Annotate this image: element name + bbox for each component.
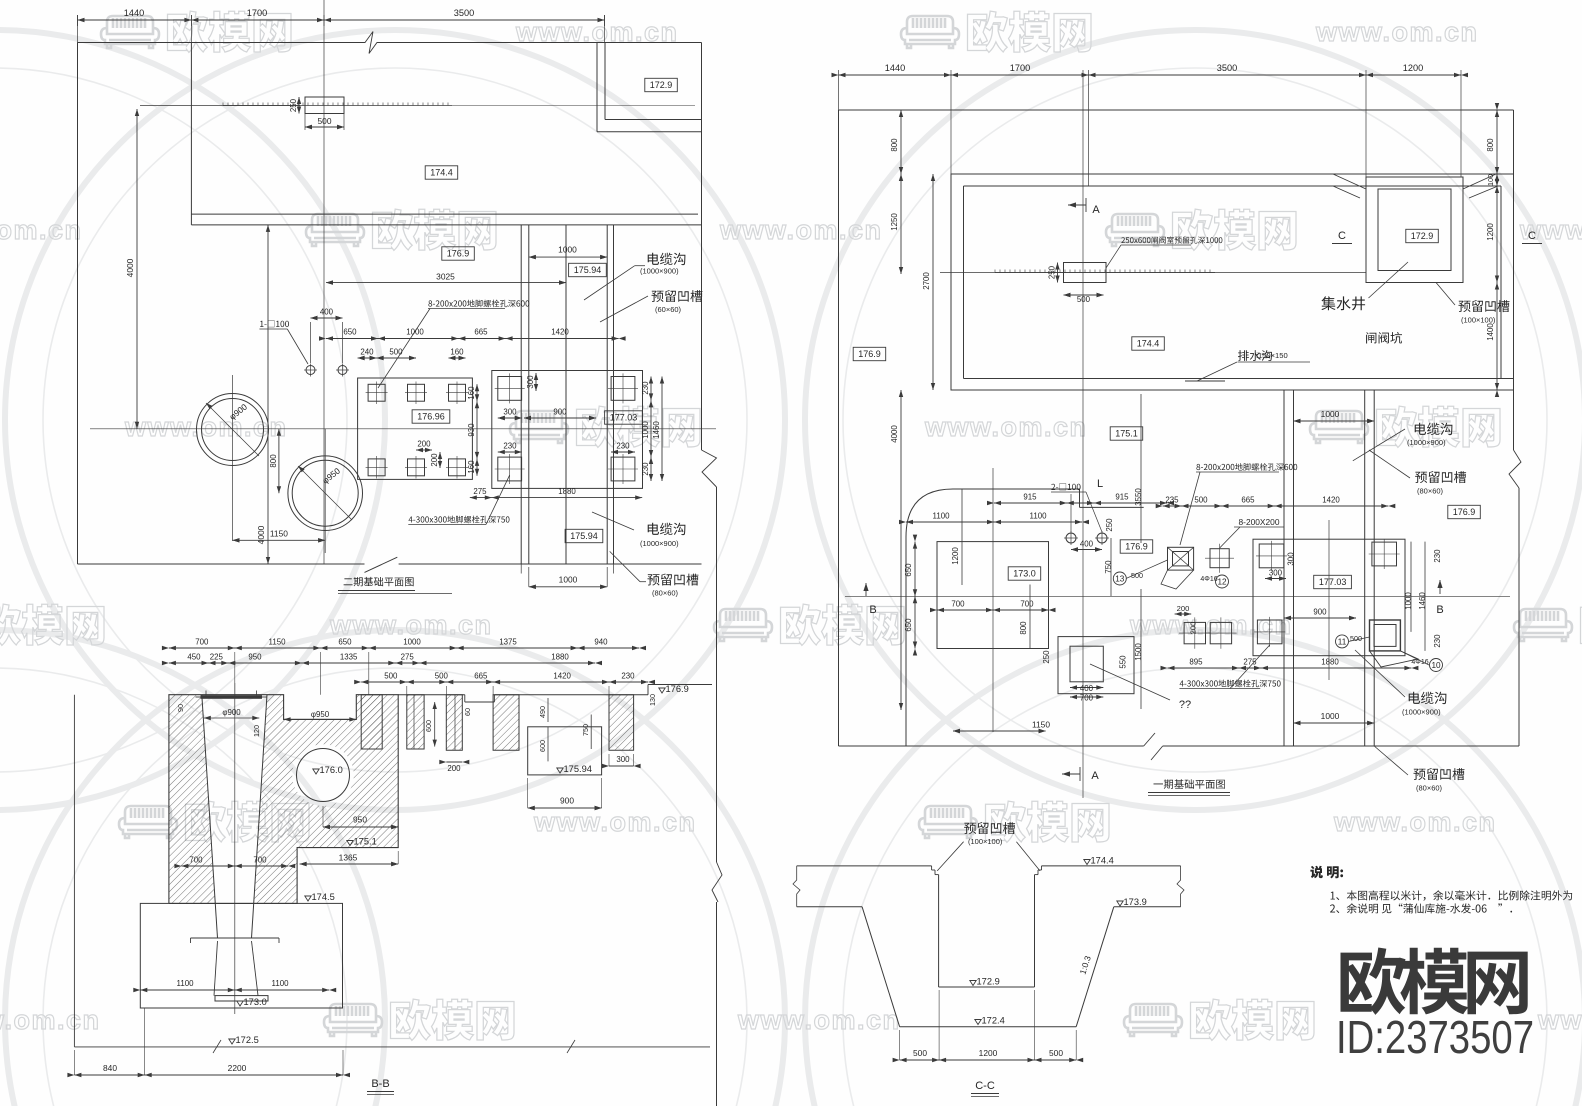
boxed label 175.1 [1110, 427, 1143, 440]
view1 band bottom double line [191, 213, 698, 215]
label 4-300x300 anchor bolts [409, 516, 510, 524]
svg-text:12: 12 [1217, 578, 1227, 587]
svg-text:1365: 1365 [339, 853, 358, 863]
svg-text:www.om.cn: www.om.cn [1315, 17, 1479, 47]
svg-text:www.om.cn: www.om.cn [329, 610, 493, 640]
svg-text:895: 895 [1189, 658, 1203, 667]
rot dims 160/930/160 right of plate [476, 384, 478, 401]
dim 1000 trench top [1294, 420, 1375, 422]
block2 centerline v [1328, 520, 1330, 680]
svg-text:175.94: 175.94 [570, 531, 598, 541]
svg-text:(1000×900): (1000×900) [640, 267, 679, 276]
svg-text:160: 160 [467, 460, 476, 474]
svg-text:400: 400 [1080, 684, 1094, 693]
BB dim 950 [323, 826, 398, 828]
view1 horizontal centerline [90, 428, 716, 430]
leader pad to ?? [1090, 664, 1170, 700]
svg-text:www.om.cn: www.om.cn [0, 1005, 101, 1035]
svg-text:500: 500 [1049, 1048, 1063, 1058]
svg-text:450: 450 [187, 653, 201, 662]
svg-text:176.0: 176.0 [320, 765, 343, 775]
svg-text:230: 230 [621, 672, 635, 681]
CC lower ground left [797, 906, 862, 908]
dim 1000 trench bottom [1294, 722, 1375, 724]
svg-text:400: 400 [1080, 540, 1094, 549]
svg-text:i150×150: i150×150 [1256, 351, 1287, 360]
svg-text:230: 230 [641, 462, 650, 476]
label 2-box100 [1051, 483, 1080, 490]
svg-text:240: 240 [360, 348, 374, 357]
view1 inner wall line [190, 43, 192, 225]
boxed label 176.9 right [1448, 505, 1481, 518]
sump funnel wings [1333, 174, 1366, 189]
BB bottom flange [215, 996, 268, 1001]
dims 1100/1100 v2 [906, 521, 1082, 523]
CC notch right [1035, 874, 1039, 876]
CC leaders to notch label [937, 842, 963, 871]
svg-text:1000: 1000 [403, 638, 421, 647]
svg-text:200: 200 [1188, 622, 1197, 635]
dim 250 rot at pipe2 [1057, 263, 1059, 283]
label 集水井 [1321, 296, 1365, 310]
svg-text:800: 800 [890, 138, 899, 152]
svg-text:176.9: 176.9 [1453, 507, 1476, 517]
view1 bottom boundary [78, 563, 365, 565]
view2 bottom boundary [839, 745, 1144, 747]
dims 895/275/1880 [1168, 667, 1412, 669]
view1 right boundary [701, 43, 703, 451]
block2 right rot dims 1000/1460 [1410, 542, 1412, 632]
svg-text:A: A [1091, 770, 1099, 782]
svg-text:665: 665 [1241, 496, 1255, 505]
svg-text:www.om.cn: www.om.cn [1333, 807, 1497, 837]
svg-text:600: 600 [538, 740, 547, 752]
svg-text:C: C [1528, 230, 1536, 242]
svg-text:300: 300 [616, 755, 630, 764]
BB pier inner lines [413, 695, 415, 749]
dim 1500 rot [1140, 589, 1142, 709]
BB dim 200 [446, 761, 462, 763]
CC top ground line right [1042, 865, 1181, 867]
label 闸阀坑 [1366, 332, 1402, 344]
label 电缆沟 bottom v2 [1409, 692, 1447, 704]
svg-text:B: B [869, 604, 876, 616]
svg-text:800: 800 [1486, 138, 1495, 152]
svg-text:4000: 4000 [890, 425, 899, 443]
block2 corner squares [1259, 544, 1284, 568]
block corner squares [498, 377, 522, 401]
BB level 172.5 [229, 1039, 235, 1044]
svg-text:1460: 1460 [1418, 592, 1427, 610]
svg-text:750: 750 [581, 724, 590, 736]
svg-text:120: 120 [252, 725, 261, 737]
svg-text:1335: 1335 [340, 653, 358, 662]
BB sump rot dims 600 490 750 [547, 727, 549, 762]
svg-text:1150: 1150 [1032, 720, 1050, 730]
svg-text:1700: 1700 [1010, 63, 1030, 73]
boxed label 175.94 lower [565, 529, 603, 542]
BB level 176.0 [313, 769, 319, 774]
bolt hole circles [306, 366, 315, 375]
CC label 预留凹槽 100x100 [964, 822, 1015, 834]
svg-text:1200: 1200 [1486, 223, 1495, 241]
BB funnel flange top [201, 695, 263, 699]
view1 vertical centerline [323, 0, 325, 564]
svg-text:1880: 1880 [551, 653, 569, 662]
BB label phi900 [204, 717, 259, 719]
label 电缆沟 (1000x900) upper [648, 253, 686, 265]
CC right slope [1076, 907, 1114, 1027]
BB flare line [191, 937, 280, 939]
svg-text:176.9: 176.9 [666, 684, 689, 694]
svg-text:900: 900 [560, 796, 574, 806]
boxed label 77.03 [605, 411, 643, 424]
threaded rod line view2 [994, 270, 996, 273]
svg-text:1000: 1000 [559, 575, 578, 585]
svg-text:1000: 1000 [1321, 409, 1340, 419]
left chain dims 800/1250/2700 [900, 110, 902, 274]
svg-text:90: 90 [176, 704, 185, 712]
circle sump phi900 [197, 394, 269, 466]
svg-text:650: 650 [343, 328, 357, 337]
svg-text:225: 225 [210, 653, 224, 662]
dim 750 rot [1110, 538, 1112, 596]
plate bolt squares row2 [368, 459, 385, 476]
svg-text:100: 100 [1486, 174, 1495, 186]
svg-text:2700: 2700 [922, 272, 931, 290]
svg-text:173.0: 173.0 [1013, 569, 1036, 579]
BB pedestal dims 1100/1100 [140, 989, 329, 991]
dims 200/200 v2 [1175, 613, 1192, 615]
CC left slope [862, 907, 900, 1027]
trench stubs below bottom [520, 564, 522, 574]
block2 special corner square 11 [1370, 620, 1401, 651]
boxed label 172.9 sump [1406, 229, 1439, 242]
svg-text:13: 13 [1115, 575, 1125, 584]
svg-text:800: 800 [1019, 621, 1028, 635]
svg-text:1460: 1460 [652, 421, 661, 439]
svg-text:230: 230 [503, 442, 517, 451]
section A marker top [1068, 202, 1076, 207]
BB dim 300 [609, 765, 634, 767]
svg-text:490: 490 [538, 706, 547, 718]
boxed label 176.9 left [853, 347, 886, 360]
svg-text:700: 700 [951, 600, 965, 609]
dims 915/915 [994, 502, 1167, 504]
svg-text:250: 250 [1042, 650, 1051, 664]
svg-text:1420: 1420 [1322, 496, 1340, 505]
svg-text:750: 750 [1104, 560, 1113, 574]
dim 400 view2 holes [1071, 549, 1102, 551]
BB piers hatched [361, 695, 382, 749]
view2 band horizontal centerline [940, 272, 1366, 274]
BB dim row3 500/500/665/1420/230 [361, 681, 648, 683]
svg-text:1250: 1250 [890, 213, 899, 231]
circled 13 [1113, 572, 1126, 585]
BB pipe circle inner [297, 749, 350, 802]
dims 240/500/160 above plate [358, 357, 377, 359]
site logo 欧模网 [1341, 948, 1528, 1015]
BB level 174.5 [305, 896, 311, 901]
svg-text:3025: 3025 [436, 272, 455, 282]
svg-text:500: 500 [384, 672, 398, 681]
svg-text:915: 915 [1023, 493, 1037, 502]
svg-text:1000: 1000 [1321, 711, 1340, 721]
svg-text:176.9: 176.9 [447, 249, 470, 259]
dim 1000 under trench [529, 586, 607, 588]
svg-text:1000: 1000 [1404, 592, 1413, 610]
block2 dims 300/300 [1265, 578, 1286, 580]
svg-text:(80×60): (80×60) [1416, 784, 1443, 793]
svg-text:915: 915 [1115, 493, 1129, 502]
svg-text:160: 160 [467, 386, 476, 400]
CC trench bottom [900, 1026, 1077, 1028]
cable trench verticals view2 [1283, 390, 1285, 746]
svg-text:1000: 1000 [641, 421, 650, 439]
circled 11 + 500 [1336, 635, 1349, 648]
BB rot dim 600 trench depth [434, 702, 436, 747]
svg-text:C-C: C-C [975, 1080, 995, 1092]
BB bottom dims 840/2200 [74, 1074, 343, 1076]
dims 275/1880 below block [470, 497, 642, 499]
svg-text:B-B: B-B [371, 1078, 389, 1090]
svg-text:172.9: 172.9 [650, 80, 673, 90]
label 预留凹槽 (80x60) below [648, 574, 699, 586]
boxed label 177.03 v2 [1314, 575, 1352, 588]
BB sump level 175.94 [557, 768, 563, 773]
square13 flare [1161, 570, 1194, 589]
view2 bolt holes [1066, 533, 1076, 543]
svg-text:177.03: 177.03 [1319, 577, 1347, 587]
label 250x600 valve hole [1121, 236, 1222, 243]
sump pit 集水井 outer [1366, 177, 1463, 283]
BB extension verticals [234, 652, 236, 695]
dims 300/900 inside block [498, 417, 522, 419]
label 电缆沟 upper right v2 [1415, 423, 1453, 435]
BB right step 130 [647, 685, 649, 695]
view2 pit outer rect [951, 174, 1514, 390]
svg-text:176.9: 176.9 [858, 349, 881, 359]
block2 dim 900 [1284, 617, 1356, 619]
block1 centerline [992, 468, 994, 732]
CC lower ground right [1114, 906, 1181, 908]
label 预留凹槽 (100x100) sump [1459, 300, 1510, 312]
svg-text:(100×100): (100×100) [1461, 316, 1496, 325]
BB excavation left edge [73, 695, 75, 1047]
view1 outer boundary [78, 42, 353, 44]
drain leader flag [1197, 362, 1237, 381]
svg-text:www.om.cn: www.om.cn [533, 807, 697, 837]
dim 4000 left vertical [136, 109, 138, 429]
BB ground line right of mass [398, 694, 465, 696]
view2 outer boundary [839, 109, 1514, 111]
view2 main horizontal centerline [845, 595, 1510, 597]
svg-text:177.03: 177.03 [610, 413, 638, 423]
dim 3550 rot [1140, 394, 1142, 543]
BB bottom line [74, 1046, 710, 1048]
boxed label 174.4 [425, 166, 458, 179]
BB level 175.1 [347, 841, 353, 846]
svg-text:172.9: 172.9 [1411, 231, 1434, 241]
svg-text:700: 700 [189, 856, 203, 865]
svg-text:174.4: 174.4 [1091, 856, 1114, 866]
svg-text:176.96: 176.96 [417, 412, 445, 422]
dim chain 650/1000/665/1420 [326, 338, 619, 340]
view2 top dimension chain 1440/1700/3500/1200 [839, 74, 1462, 76]
dim 1150 v2 [953, 730, 1046, 732]
svg-text:www.om.cn: www.om.cn [924, 412, 1088, 442]
svg-text:(1000×900): (1000×900) [1402, 708, 1441, 717]
svg-text:230: 230 [616, 442, 630, 451]
svg-text:840: 840 [103, 1063, 117, 1073]
label 排水沟 [1238, 350, 1272, 361]
svg-text:300: 300 [526, 375, 535, 389]
svg-text:940: 940 [594, 638, 608, 647]
dims 200/200 row2 [416, 449, 432, 451]
svg-text:230: 230 [1433, 634, 1442, 648]
notes line2 [1330, 903, 1512, 913]
svg-text:4000: 4000 [256, 525, 266, 544]
svg-text:ID:2373507: ID:2373507 [1336, 1011, 1534, 1063]
leader to slot [600, 296, 648, 322]
svg-text:950: 950 [248, 653, 262, 662]
svg-text:1700: 1700 [247, 8, 267, 18]
svg-text:600: 600 [424, 720, 433, 732]
svg-text:173.9: 173.9 [1124, 897, 1147, 907]
svg-text:200: 200 [1177, 604, 1190, 613]
mid bolt squares [1210, 549, 1229, 568]
svg-text:275: 275 [1243, 658, 1257, 667]
view1 top dimension chain 1440/1700/3500 [78, 19, 605, 21]
sump pit inner [1378, 189, 1451, 271]
svg-text:650: 650 [338, 638, 352, 647]
svg-text:700: 700 [253, 856, 267, 865]
svg-text:60: 60 [463, 708, 472, 716]
svg-text:665: 665 [474, 672, 488, 681]
BB funnel walls [202, 695, 218, 938]
dim 250 rotated at pipe [298, 97, 300, 114]
svg-text:1400: 1400 [1486, 323, 1495, 341]
CC level 173.9 [1117, 901, 1123, 906]
svg-text:174.4: 174.4 [1137, 339, 1160, 349]
svg-text:300: 300 [1286, 552, 1295, 566]
small pad outer [1058, 637, 1134, 694]
view2 pipe sleeve rect [1064, 263, 1107, 283]
svg-text:(1000×900): (1000×900) [640, 539, 679, 548]
label 预留凹槽 bottom v2 [1414, 768, 1465, 780]
svg-text:φ950: φ950 [311, 710, 330, 719]
svg-text:900: 900 [1313, 608, 1327, 617]
svg-text:930: 930 [467, 423, 476, 437]
dim 4000 left lower [900, 390, 902, 710]
section A marker bottom [1062, 771, 1070, 776]
CC bottom dims 500/1200/500 [900, 1059, 1077, 1061]
svg-text:4Φ16: 4Φ16 [1411, 659, 1428, 666]
svg-text:1420: 1420 [553, 672, 571, 681]
block1 dim 1200 rot [961, 489, 963, 585]
BB shaft below flare [214, 941, 218, 996]
small pad inner [1070, 646, 1103, 682]
svg-text:230: 230 [641, 381, 650, 395]
pump block2 rect [1253, 539, 1405, 656]
svg-text:1100: 1100 [1030, 512, 1048, 521]
view1 top-right notch 172.9 pit [596, 43, 598, 132]
svg-text:650: 650 [904, 563, 913, 577]
svg-text:1880: 1880 [558, 487, 576, 496]
BB level 176.9 right [659, 688, 665, 693]
svg-text:L: L [1097, 478, 1103, 490]
svg-text:3500: 3500 [454, 8, 474, 18]
CC level 172.9 [970, 981, 976, 986]
BB dim row1 700/1150/650/1000/1375/940 [169, 647, 639, 649]
svg-text:1150: 1150 [269, 638, 287, 647]
svg-text:3550: 3550 [1134, 488, 1143, 506]
svg-text:1100: 1100 [177, 979, 195, 988]
label 电缆沟 lower right [648, 523, 686, 535]
svg-text:175.94: 175.94 [574, 265, 602, 275]
BB ledge dim phi950 [284, 718, 357, 720]
svg-text:230: 230 [1433, 549, 1442, 563]
boxed label 176.9 mid [1120, 540, 1153, 553]
notes line1 [1331, 890, 1573, 900]
anchor plate rect [358, 378, 473, 479]
boxed label 175.94 upper [569, 263, 607, 276]
view1 pipe sleeve rect [305, 97, 344, 114]
BB pedestal [140, 903, 342, 1008]
svg-text:10: 10 [1431, 661, 1441, 670]
title 一期基础平面图 [1154, 779, 1225, 789]
boxed label 176.9 [442, 247, 475, 260]
svg-text:700: 700 [1020, 600, 1034, 609]
svg-text:250: 250 [1105, 518, 1114, 532]
right chain dims 800/100/1200/1400 [1496, 110, 1498, 390]
svg-text:200: 200 [417, 440, 431, 449]
svg-text:1420: 1420 [551, 328, 569, 337]
svg-text:1150: 1150 [270, 529, 288, 539]
leader cable trench upper [584, 266, 635, 300]
title 二期基础平面图 [344, 577, 414, 587]
BB sump dim 900 [528, 807, 602, 809]
notes heading 说明 [1310, 866, 1343, 879]
svg-text:8-200X200: 8-200X200 [1239, 517, 1280, 527]
svg-text:(1000×900): (1000×900) [1407, 438, 1446, 447]
svg-text:(100×100): (100×100) [968, 837, 1003, 846]
CC pit bottom [939, 986, 1035, 988]
BB shaft centerline [234, 683, 236, 1014]
svg-text:(80×60): (80×60) [1417, 487, 1444, 496]
svg-text:300: 300 [503, 408, 517, 417]
svg-text:1880: 1880 [1321, 658, 1339, 667]
square13 detail [1168, 547, 1194, 570]
svg-text:1200: 1200 [1403, 63, 1423, 73]
dim 800 between centers [278, 429, 280, 493]
svg-text:174.5: 174.5 [312, 892, 335, 902]
CC top ground line left [797, 865, 932, 867]
svg-text:235: 235 [1165, 496, 1179, 505]
svg-text:11: 11 [1338, 637, 1347, 646]
svg-text:1000: 1000 [406, 328, 424, 337]
label 1-box100 [260, 320, 289, 327]
svg-text:1375: 1375 [499, 638, 517, 647]
dim 4000 lower-left rotated [267, 225, 269, 564]
svg-text:500: 500 [318, 116, 332, 126]
section B markers [863, 583, 868, 591]
view2 foundation rounded corner [906, 489, 953, 537]
svg-text:1100: 1100 [272, 979, 290, 988]
dim chain 235/500/665/1420 v2 [1163, 505, 1389, 507]
svg-text:φ900: φ900 [222, 708, 241, 717]
label 8-200x200 anchor bolts [428, 300, 529, 308]
